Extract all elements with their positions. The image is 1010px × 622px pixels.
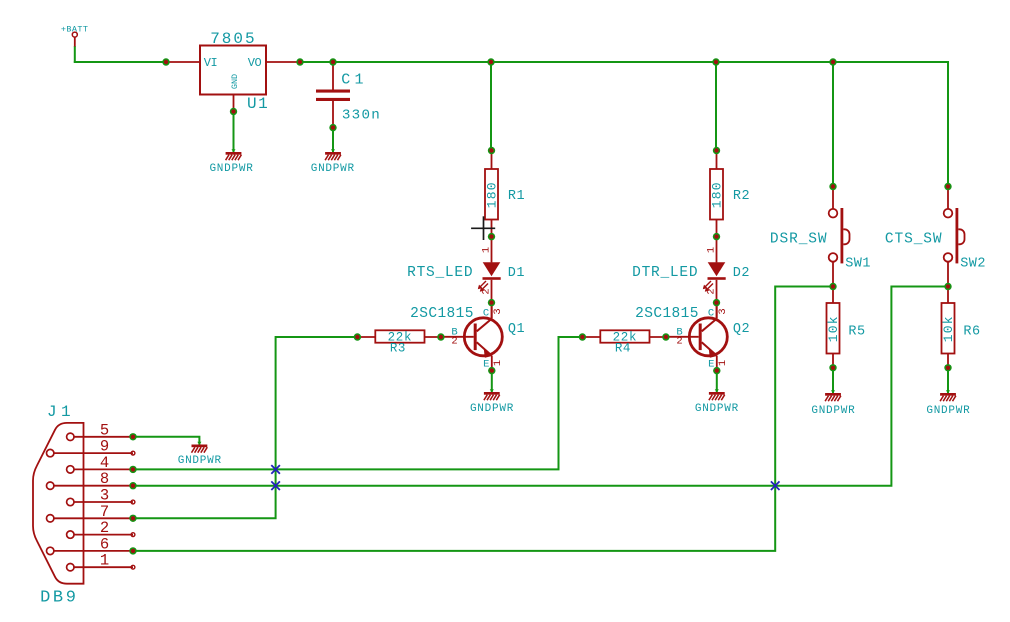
svg-text:D1: D1 bbox=[508, 266, 525, 281]
svg-text:1: 1 bbox=[481, 247, 493, 253]
svg-text:R3: R3 bbox=[390, 342, 406, 356]
svg-text:E: E bbox=[483, 358, 489, 370]
svg-text:2SC1815: 2SC1815 bbox=[410, 306, 474, 322]
svg-text:2: 2 bbox=[451, 336, 457, 348]
svg-text:9: 9 bbox=[100, 438, 109, 456]
svg-text:7: 7 bbox=[100, 503, 109, 521]
svg-text:GNDPWR: GNDPWR bbox=[178, 455, 222, 467]
svg-text:R4: R4 bbox=[615, 342, 631, 356]
svg-text:GNDPWR: GNDPWR bbox=[811, 405, 855, 417]
svg-text:U1: U1 bbox=[247, 95, 269, 113]
svg-text:3: 3 bbox=[100, 487, 109, 505]
svg-text:2SC1815: 2SC1815 bbox=[635, 306, 699, 322]
svg-text:C1: C1 bbox=[341, 72, 367, 89]
svg-text:1: 1 bbox=[100, 552, 109, 570]
svg-text:R6: R6 bbox=[963, 325, 980, 340]
svg-text:7805: 7805 bbox=[210, 30, 256, 48]
svg-text:RTS_LED: RTS_LED bbox=[407, 265, 473, 281]
svg-text:Q2: Q2 bbox=[733, 322, 750, 337]
svg-text:GNDPWR: GNDPWR bbox=[695, 403, 739, 415]
svg-text:180: 180 bbox=[485, 181, 500, 208]
svg-text:E: E bbox=[708, 358, 714, 370]
svg-text:D2: D2 bbox=[733, 266, 750, 281]
svg-text:1: 1 bbox=[492, 360, 504, 366]
svg-text:R5: R5 bbox=[848, 325, 865, 340]
svg-text:J1: J1 bbox=[47, 403, 75, 421]
svg-text:2: 2 bbox=[706, 288, 718, 294]
svg-text:VI: VI bbox=[204, 56, 217, 70]
svg-text:Q1: Q1 bbox=[508, 322, 525, 337]
svg-text:1: 1 bbox=[717, 360, 729, 366]
svg-text:GND: GND bbox=[230, 74, 240, 89]
svg-text:10k: 10k bbox=[941, 315, 956, 342]
svg-text:2: 2 bbox=[676, 336, 682, 348]
svg-text:2: 2 bbox=[481, 288, 493, 294]
svg-text:DTR_LED: DTR_LED bbox=[632, 265, 698, 281]
svg-text:C: C bbox=[708, 307, 714, 319]
svg-text:180: 180 bbox=[710, 181, 725, 208]
svg-text:GNDPWR: GNDPWR bbox=[311, 163, 355, 175]
svg-text:R2: R2 bbox=[733, 189, 750, 204]
svg-text:330n: 330n bbox=[342, 107, 381, 123]
svg-text:C: C bbox=[483, 307, 489, 319]
svg-text:SW1: SW1 bbox=[845, 257, 871, 272]
svg-text:SW2: SW2 bbox=[960, 257, 986, 272]
svg-text:6: 6 bbox=[100, 535, 109, 553]
svg-text:5: 5 bbox=[100, 421, 109, 439]
svg-text:10k: 10k bbox=[826, 315, 841, 342]
svg-text:2: 2 bbox=[100, 519, 109, 537]
svg-text:3: 3 bbox=[717, 308, 729, 314]
svg-text:DB9: DB9 bbox=[40, 589, 78, 608]
svg-text:CTS_SW: CTS_SW bbox=[885, 231, 943, 247]
svg-text:4: 4 bbox=[100, 454, 109, 472]
svg-text:1: 1 bbox=[706, 247, 718, 253]
svg-text:VO: VO bbox=[248, 56, 262, 70]
svg-text:GNDPWR: GNDPWR bbox=[470, 403, 514, 415]
svg-text:+BATT: +BATT bbox=[61, 24, 89, 34]
svg-text:8: 8 bbox=[100, 470, 109, 488]
svg-text:DSR_SW: DSR_SW bbox=[770, 231, 828, 247]
svg-text:R1: R1 bbox=[508, 189, 525, 204]
svg-text:GNDPWR: GNDPWR bbox=[209, 163, 253, 175]
svg-text:GNDPWR: GNDPWR bbox=[926, 405, 970, 417]
svg-text:3: 3 bbox=[492, 308, 504, 314]
